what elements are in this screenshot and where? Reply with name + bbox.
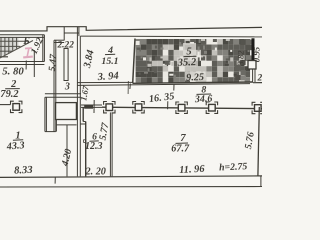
staircase shading: [0, 37, 19, 56]
column C3: [176, 102, 187, 113]
pink alteration mark: [23, 48, 33, 57]
wall corridor left: [66, 125, 68, 176]
dimension tick line: [33, 50, 35, 77]
svg-text:15.1: 15.1: [101, 56, 118, 67]
dimension tick below 16.35: [167, 101, 169, 109]
column C1: [104, 102, 115, 113]
column C4: [206, 102, 217, 113]
staircase bottom wall double: [0, 61, 44, 63]
dimension tick below corner: [129, 84, 132, 90]
wall bottom outer upper: [0, 176, 262, 178]
wall closet inner vertical: [55, 120, 57, 132]
svg-text:h=2.75: h=2.75: [219, 161, 248, 173]
wall room6 right: [109, 112, 111, 176]
paper background: [0, 0, 262, 221]
svg-text:Б: Б: [22, 36, 30, 47]
wall room3 top: [54, 39, 64, 41]
svg-text:3: 3: [64, 81, 70, 92]
wall room5 right thick: [252, 38, 255, 60]
wall right outer: [258, 107, 259, 176]
wall room1 right: [44, 97, 46, 131]
wall bottom tick: [54, 177, 56, 184]
svg-text:2: 2: [256, 74, 262, 84]
dimension tick 5.80: [25, 61, 27, 70]
svg-text:9.25: 9.25: [186, 72, 204, 84]
shaft rectangle below bump: [64, 32, 79, 34]
staircase top wall double: [0, 34, 44, 36]
svg-text:8.33: 8.33: [14, 165, 34, 177]
svg-text:79.2: 79.2: [0, 89, 18, 100]
dimension tick: [127, 81, 129, 94]
svg-text:11. 96: 11. 96: [179, 164, 206, 176]
svg-text:3.82: 3.82: [235, 50, 246, 67]
staircase right wall: [42, 35, 44, 62]
wall stub to right edge: [253, 82, 262, 84]
wall room5 left: [133, 39, 135, 84]
wall closet left closure: [45, 131, 56, 133]
svg-text:2. 20: 2. 20: [85, 166, 106, 177]
svg-text:5. 80: 5. 80: [2, 65, 24, 77]
svg-text:7: 7: [180, 132, 186, 144]
wall bottom outer lower: [0, 186, 262, 189]
column C2: [133, 102, 144, 113]
svg-text:35.2: 35.2: [176, 57, 197, 69]
svg-text:67.7: 67.7: [171, 144, 190, 155]
svg-text:43.3: 43.3: [5, 140, 25, 153]
svg-text:12.3: 12.3: [85, 141, 103, 152]
duct narrow rectangle in room 3: [64, 49, 68, 81]
shaft bottom line: [56, 124, 77, 126]
wall room4 bottom double: [77, 81, 132, 83]
column C5: [252, 102, 263, 113]
wall bottom right connector: [260, 176, 262, 187]
column P0: [11, 101, 22, 112]
wall room3/room4 divider full height: [76, 27, 78, 177]
mosaic censored room 5: [136, 39, 252, 83]
wall stub from left edge: [0, 104, 11, 106]
svg-text:5.47: 5.47: [47, 53, 60, 72]
wall inner top line right part: [80, 35, 262, 38]
wall top outer with bay bump: [0, 27, 262, 31]
wall room2/room3 divider: [53, 40, 55, 131]
wall room3 bottom double: [45, 93, 81, 95]
wall room6 left pilaster bump: [84, 140, 86, 143]
light patches for labels: [183, 43, 196, 55]
wall colonnade corridor top: [81, 104, 102, 106]
wall room6 left upper jog: [82, 108, 84, 122]
wall jog connector: [80, 123, 85, 125]
window room5 right: [248, 61, 256, 70]
staircase tread grid: [0, 37, 29, 57]
dimension tick above 16.35: [173, 84, 175, 90]
dimension tick 1.67: [93, 100, 95, 113]
staircase direction diagonal: [0, 41, 33, 59]
wall room5 bottom frame: [133, 82, 253, 83]
wall room6 left: [85, 122, 87, 177]
svg-text:0.95: 0.95: [252, 46, 262, 62]
shaft inner box: [56, 103, 77, 120]
wall room5 right lower: [252, 69, 254, 82]
svg-text:3. 94: 3. 94: [96, 71, 119, 84]
mosaic right edge cells: [240, 40, 245, 45]
svg-text:34.6: 34.6: [194, 93, 213, 105]
